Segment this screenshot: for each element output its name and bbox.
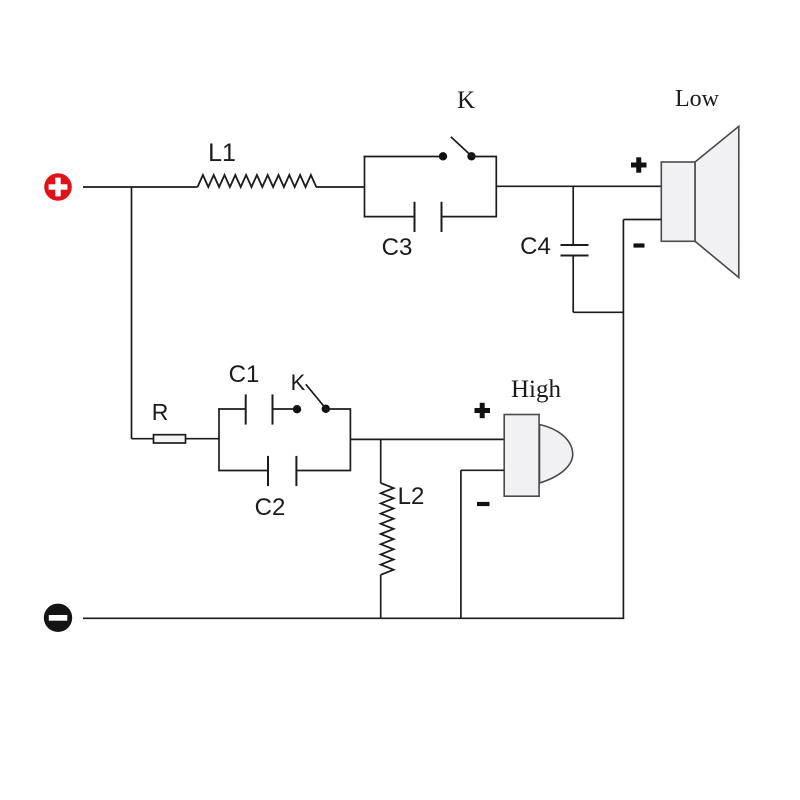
label minus of Low (634, 243, 645, 247)
capacitor C4 plate bottom (561, 255, 589, 257)
label plus of High (475, 403, 491, 418)
svg-text:C3: C3 (382, 234, 413, 261)
top loop left edge (364, 156, 366, 217)
svg-text:Low: Low (675, 86, 720, 112)
switch K2 contact dot left (293, 405, 301, 413)
label minus of High (477, 502, 490, 506)
wire bottom branch left to C3 (364, 216, 415, 218)
svg-text:K: K (457, 87, 475, 114)
capacitor C1 plate left (245, 394, 247, 424)
capacitor C2 plate left (267, 456, 269, 486)
top loop right edge (495, 156, 497, 217)
wire top loop to speaker Low plus (496, 185, 661, 187)
wire R to lower loop (186, 438, 220, 440)
svg-text:L1: L1 (208, 139, 236, 167)
wire top branch to C1 (218, 408, 246, 410)
wire minus rail vertical (622, 220, 624, 619)
tweeter High body (504, 415, 539, 497)
svg-text:C2: C2 (255, 494, 286, 521)
switch K2 lever (306, 384, 326, 408)
speaker Low horn (695, 126, 739, 277)
wire tweeter minus horizontal (461, 469, 504, 471)
label plus of Low (631, 157, 647, 172)
svg-text:C1: C1 (229, 361, 260, 388)
wire C4 to minus rail (573, 311, 623, 313)
wire bottom branch to C2 (218, 470, 268, 472)
node L2 branch wire down (380, 439, 382, 483)
capacitor C3 plate left (414, 202, 416, 232)
node branch down from plus (131, 187, 133, 439)
wire C1 to switch (273, 408, 298, 410)
wire switch to lower loop right edge (326, 408, 351, 410)
speaker Low body (661, 162, 695, 241)
inductor L2 (381, 483, 394, 575)
wire L2 to bottom bus (380, 575, 382, 619)
tweeter High dome (540, 425, 573, 484)
wire speaker Low minus (623, 219, 661, 221)
wire tweeter minus down to bus (460, 470, 462, 618)
svg-text:C4: C4 (520, 233, 551, 260)
svg-text:R: R (152, 399, 169, 425)
wire top branch to switch (364, 156, 443, 158)
lower loop right edge (349, 408, 351, 470)
svg-text:L2: L2 (398, 483, 425, 510)
capacitor C2 plate right (295, 456, 297, 486)
capacitor C1 plate right (272, 394, 274, 424)
node C4 branch wire down (572, 186, 574, 245)
switch K contact dot left (439, 152, 447, 160)
terminal MINUS (black) (44, 604, 72, 632)
wire from + to L1 (83, 186, 198, 188)
resistor R (154, 435, 186, 443)
capacitor C3 plate right (441, 202, 443, 232)
wire switch to top loop right edge (472, 156, 497, 158)
capacitor C4 plate top (561, 244, 589, 246)
switch K2 contact dot right (322, 405, 330, 413)
switch K contact dot right (467, 152, 475, 160)
wire to resistor R (132, 438, 154, 440)
inductor L1 (198, 175, 317, 187)
switch K lever (451, 137, 472, 156)
wire C4 bottom down (572, 256, 574, 313)
wire C2 to loop right edge (296, 470, 351, 472)
lower loop left edge (218, 408, 220, 470)
terminal PLUS (red) (44, 173, 72, 201)
wire L1 to top loop (316, 186, 365, 188)
svg-text:K: K (291, 370, 306, 395)
wire lower loop to tweeter plus (350, 438, 504, 440)
svg-text:High: High (511, 376, 562, 403)
bottom bus wire (83, 617, 624, 619)
wire C3 to loop right edge (442, 216, 498, 218)
